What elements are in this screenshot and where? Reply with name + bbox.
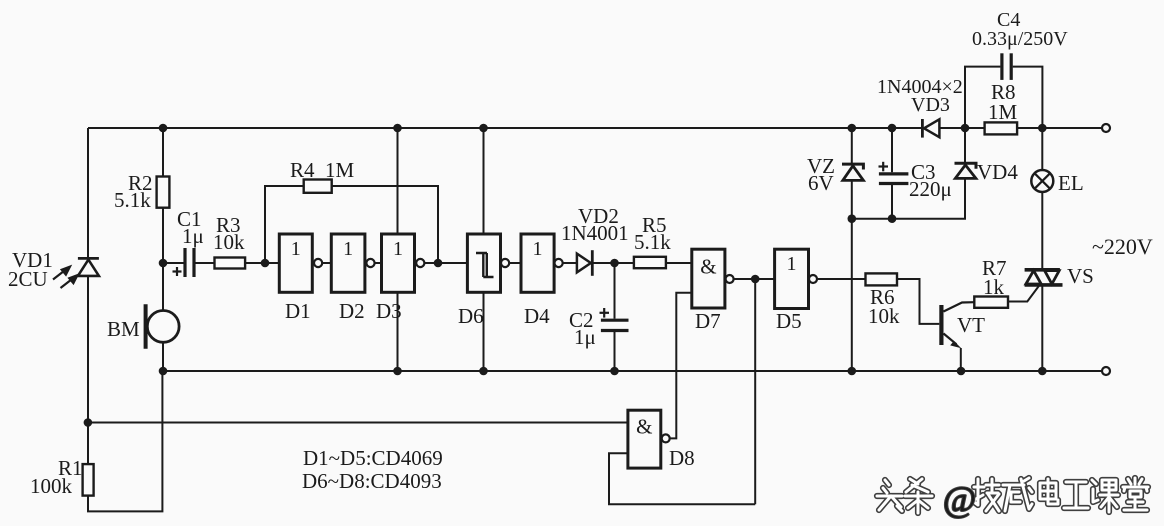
svg-text:1: 1 — [291, 238, 301, 260]
svg-text:EL: EL — [1058, 171, 1084, 195]
svg-text:BM: BM — [107, 317, 140, 341]
svg-text:D8: D8 — [669, 446, 695, 470]
wire D4 to VD2 — [563, 262, 577, 264]
wire top supply rail — [88, 127, 1102, 129]
svg-text:D3: D3 — [376, 299, 402, 323]
wire D6 power stub bottom — [483, 292, 485, 371]
svg-text:~220V: ~220V — [1092, 234, 1153, 259]
resistor R6 — [866, 273, 898, 285]
svg-text:1: 1 — [787, 253, 797, 275]
inverter D3 — [382, 234, 425, 292]
wire R2/BM vertical branch — [162, 128, 164, 372]
wire D3 to D6 — [425, 262, 468, 264]
zener diode VZ — [842, 164, 863, 180]
label 1N4004x2 VD3 — [877, 76, 963, 116]
svg-text:D6: D6 — [458, 304, 484, 328]
svg-text:VD3: VD3 — [911, 94, 950, 116]
diode VD2 — [577, 250, 592, 276]
wire ground bus — [162, 370, 1102, 372]
junction dot sensor node — [84, 418, 93, 427]
wire left VD1/R1 branch — [88, 128, 162, 511]
wire C3 branch — [891, 128, 893, 219]
wire D2 to D3 — [375, 262, 382, 264]
svg-text:10k: 10k — [868, 304, 900, 328]
label VD1 2CU — [8, 248, 53, 291]
svg-text:VD4: VD4 — [977, 160, 1018, 184]
wire D7 output to D5 — [733, 278, 774, 280]
svg-text:&: & — [636, 415, 652, 439]
label VD2 1N4001 — [561, 204, 629, 245]
label R8 1M — [988, 80, 1018, 124]
resistor R8 — [985, 122, 1018, 134]
label C4 0.33u/250V — [972, 9, 1068, 50]
photodiode VD1 — [53, 258, 99, 288]
terminal top AC — [1102, 124, 1110, 132]
label C2 1u — [569, 308, 596, 349]
svg-text:1k: 1k — [983, 275, 1005, 299]
svg-text:VS: VS — [1067, 264, 1094, 288]
svg-text:1N4001: 1N4001 — [561, 221, 629, 245]
svg-text:R4 1M: R4 1M — [290, 158, 355, 182]
wire VZ branch — [851, 128, 853, 371]
label R1 100k — [30, 456, 83, 498]
wire R4 feedback branch — [265, 186, 438, 263]
svg-text:100k: 100k — [30, 474, 73, 498]
label C1 1u — [177, 207, 204, 248]
svg-text:1: 1 — [533, 238, 543, 260]
schmitt gate D6 — [467, 234, 509, 292]
wire D6 to D4 — [509, 262, 521, 264]
capacitor C4 — [1002, 53, 1011, 80]
svg-text:D6~D8:CD4093: D6~D8:CD4093 — [302, 469, 442, 493]
svg-text:D4: D4 — [524, 304, 550, 328]
inverter D1 — [279, 234, 322, 292]
resistor R1 — [83, 464, 94, 496]
diode VD4 — [955, 163, 977, 178]
wire VD4 branch — [964, 128, 966, 162]
junction dots signal line — [159, 259, 760, 284]
label R6 10k — [868, 285, 900, 328]
microphone BM — [146, 304, 180, 349]
junction dots ground bus — [159, 367, 1047, 376]
inverter D2 — [331, 234, 374, 292]
resistor R7 — [974, 297, 1008, 308]
transistor VT — [941, 302, 974, 371]
diode VD3 — [922, 119, 939, 138]
svg-text:220μ: 220μ — [909, 177, 952, 201]
svg-text:&: & — [700, 255, 716, 279]
svg-text:1μ: 1μ — [182, 224, 204, 248]
wire main signal line C1 to D1 — [163, 262, 279, 264]
svg-text:1M: 1M — [988, 100, 1018, 124]
svg-text:D1: D1 — [285, 299, 311, 323]
svg-text:10k: 10k — [213, 230, 245, 254]
wire D8 output to D7 lower input — [670, 293, 692, 439]
wire VD2 to R5 — [593, 262, 634, 264]
nand gate D7 — [692, 249, 734, 308]
wire D5 output feedback to D8 lower input — [609, 279, 755, 504]
label IC types CD4069 CD4093 — [302, 446, 443, 493]
wire C2 branch — [614, 263, 616, 371]
capacitor C3 — [879, 174, 909, 184]
svg-text:5.1k: 5.1k — [114, 188, 151, 212]
label R5 5.1k — [634, 213, 671, 254]
svg-text:2CU: 2CU — [8, 267, 48, 291]
svg-text:1: 1 — [393, 238, 403, 260]
lamp EL — [1031, 170, 1053, 192]
resistor R3 — [215, 258, 246, 269]
C1 plus sign — [173, 267, 182, 276]
junction dots zener return — [848, 214, 897, 223]
svg-text:D1~D5:CD4069: D1~D5:CD4069 — [303, 446, 443, 470]
wire C4 snubber branch — [965, 67, 1042, 128]
resistor R5 — [634, 257, 666, 268]
wire node A sensor line to D8 input — [88, 422, 628, 424]
wire R5 to D7 input — [666, 262, 692, 264]
svg-text:5.1k: 5.1k — [634, 230, 671, 254]
triac VS — [1008, 270, 1063, 302]
wire D5 output to R6 — [817, 278, 866, 280]
svg-text:1: 1 — [343, 238, 353, 260]
capacitor C1 — [185, 248, 194, 277]
C2 plus sign — [600, 308, 610, 318]
nand gate D8 — [628, 410, 670, 468]
svg-text:@: @ — [943, 479, 976, 519]
label C3 220u — [909, 160, 952, 201]
label VZ 6V — [807, 154, 835, 195]
capacitor C2 — [601, 320, 629, 330]
svg-text:D2: D2 — [339, 299, 365, 323]
resistor R2 — [157, 177, 170, 208]
terminal bottom AC — [1102, 367, 1110, 375]
wire D3 power stub top — [397, 128, 399, 234]
resistor R4 — [304, 180, 332, 193]
svg-text:D5: D5 — [776, 309, 802, 333]
wire D6 power stub top — [483, 128, 485, 234]
inverter D5 — [775, 249, 817, 308]
label R3 10k — [213, 213, 245, 254]
wire D1 to D2 — [322, 262, 331, 264]
wire zener common return line — [852, 179, 965, 219]
wire EL lamp branch — [1041, 128, 1043, 371]
junction dots top rail — [159, 124, 1047, 133]
label R7 1k — [982, 256, 1007, 299]
wire D3 power stub bottom — [397, 292, 399, 371]
svg-text:0.33μ/250V: 0.33μ/250V — [972, 28, 1068, 50]
svg-text:1μ: 1μ — [574, 325, 596, 349]
svg-text:D7: D7 — [695, 309, 721, 333]
inverter D4 — [521, 234, 563, 292]
svg-text:VT: VT — [957, 313, 985, 337]
svg-text:6V: 6V — [808, 171, 834, 195]
watermark toutiao logo text — [877, 478, 1148, 519]
C3 plus sign — [879, 162, 889, 172]
label R2 5.1k — [114, 171, 153, 212]
wire R6 to VT base — [897, 279, 939, 324]
